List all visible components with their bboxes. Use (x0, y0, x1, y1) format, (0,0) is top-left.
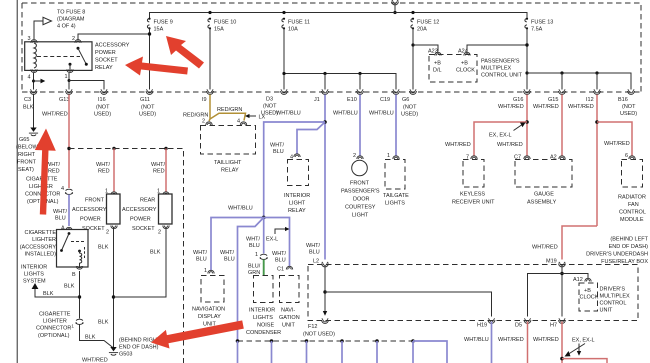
svg-text:WHT/: WHT/ (306, 243, 321, 249)
svg-text:CLOCK: CLOCK (580, 295, 599, 301)
svg-text:BLK: BLK (64, 284, 75, 290)
svg-text:C1: C1 (277, 267, 284, 273)
svg-text:L2: L2 (313, 259, 319, 265)
svg-text:(NOT: (NOT (96, 105, 110, 111)
svg-text:4: 4 (28, 75, 31, 81)
tailgate lights (383, 153, 409, 207)
bottom dashed bus (236, 339, 415, 343)
svg-text:LIGHT: LIGHT (352, 213, 369, 219)
svg-text:BLK: BLK (43, 291, 54, 297)
svg-text:LIGHTS: LIGHTS (253, 315, 273, 321)
svg-text:PASSENGER'S: PASSENGER'S (341, 189, 380, 195)
svg-text:A12: A12 (573, 277, 583, 283)
svg-text:LIGHTER: LIGHTER (32, 237, 56, 243)
red arrow annotation G503 (151, 320, 244, 348)
branch M19 to A12 (562, 274, 588, 279)
connector C3 (23, 89, 37, 110)
svg-text:BLK: BLK (98, 245, 109, 251)
svg-text:EX, EX-L: EX, EX-L (572, 338, 595, 344)
svg-text:BLU: BLU (273, 149, 284, 155)
fuse12 tap to A23 (411, 43, 438, 51)
lighter wire to ground joint (80, 325, 114, 349)
svg-text:F12: F12 (308, 324, 317, 330)
taillight relay (201, 119, 256, 174)
svg-text:WHT/BLU: WHT/BLU (369, 111, 394, 117)
svg-text:BLK: BLK (98, 320, 109, 326)
I9 red/grn wire (183, 95, 246, 122)
svg-text:LIGHTS: LIGHTS (24, 272, 44, 278)
rear accessory power socket (122, 189, 172, 236)
svg-text:D5: D5 (515, 323, 522, 329)
svg-text:RIGHT: RIGHT (18, 152, 36, 158)
front passenger's door courtesy light (341, 153, 380, 219)
svg-text:NOISE: NOISE (257, 323, 274, 329)
svg-text:RED: RED (153, 169, 165, 175)
svg-text:CONTROL: CONTROL (619, 210, 646, 216)
svg-text:DRIVER'S UNDERDASH: DRIVER'S UNDERDASH (586, 252, 648, 258)
svg-text:CONTROL UNIT: CONTROL UNIT (481, 73, 523, 79)
EX, EX-L annotation bottom (565, 338, 595, 357)
svg-text:MULTIPLEX: MULTIPLEX (600, 294, 630, 300)
svg-text:USED): USED) (139, 112, 156, 118)
ground G65 (16, 128, 39, 174)
svg-text:WHT/: WHT/ (220, 250, 235, 256)
svg-text:D/L: D/L (433, 68, 442, 74)
svg-text:(NOT: (NOT (403, 105, 417, 111)
svg-text:(BEHIND LEFT: (BEHIND LEFT (610, 237, 648, 243)
svg-text:BLU: BLU (196, 257, 207, 263)
J1 blue wire down (323, 95, 327, 260)
svg-text:1: 1 (387, 153, 390, 159)
wire to rear socket (151, 149, 166, 193)
G15 red wire to A2 (561, 95, 563, 156)
svg-text:(NOT: (NOT (141, 105, 155, 111)
svg-text:BLU: BLU (224, 257, 235, 263)
I12 wire jog to M19 (532, 226, 597, 260)
dashed branch wire (69, 149, 184, 363)
front socket ground wire (98, 227, 115, 348)
svg-text:WHT/BLU: WHT/BLU (276, 111, 301, 117)
svg-text:RED/GRN: RED/GRN (217, 107, 242, 113)
connector D3 (not used) (261, 89, 287, 116)
interior lights system arrow (21, 265, 80, 298)
svg-text:A24: A24 (458, 49, 468, 55)
svg-text:NAVI-: NAVI- (281, 308, 295, 314)
svg-text:FUSE 13: FUSE 13 (531, 20, 553, 26)
svg-text:G503: G503 (119, 352, 132, 358)
svg-text:LIGHTER: LIGHTER (43, 319, 67, 325)
blu/grn wire (248, 260, 264, 277)
ground G503 (109, 338, 161, 358)
to fuse 8 arrow (34, 10, 85, 40)
H7 node and branch right (560, 357, 607, 363)
F12 connector (not used) (303, 318, 335, 337)
svg-text:WHT/BLU: WHT/BLU (333, 111, 358, 117)
svg-text:WHT/: WHT/ (272, 251, 287, 257)
svg-text:B: B (72, 272, 76, 278)
svg-text:INSTALLED): INSTALLED) (25, 252, 57, 258)
cigarette lighter connector (optional) upper (25, 177, 73, 206)
rear socket ground wire (114, 227, 167, 297)
node G13 branch (67, 147, 167, 150)
I12 red wire (595, 95, 599, 227)
svg-text:G13: G13 (59, 97, 69, 103)
red arrow annotation relay (125, 57, 188, 76)
cigarette lighter connector (optional) lower (36, 312, 84, 340)
branch to interior light relay (270, 122, 325, 155)
svg-text:E10: E10 (347, 97, 357, 103)
fuse 12 (411, 18, 439, 90)
svg-text:INTERIOR: INTERIOR (284, 193, 310, 199)
blue drops below bus (238, 341, 414, 363)
svg-text:(NOT USED): (NOT USED) (303, 332, 335, 338)
svg-text:4 OF 4): 4 OF 4) (57, 24, 76, 30)
svg-text:INTERIOR: INTERIOR (21, 265, 47, 271)
wire to front socket (96, 149, 114, 193)
svg-text:H7: H7 (550, 323, 557, 329)
svg-text:FUSE 11: FUSE 11 (288, 20, 310, 26)
svg-text:RED: RED (98, 169, 110, 175)
branch to navigation display unit (193, 218, 264, 271)
svg-text:J1: J1 (314, 97, 320, 103)
svg-text:INTERIOR: INTERIOR (249, 308, 275, 314)
wire pin2 to fuse9 node (78, 32, 151, 39)
connector G13 (42, 89, 72, 117)
svg-text:RED: RED (48, 169, 60, 175)
svg-text:M19: M19 (546, 259, 557, 265)
svg-text:G65: G65 (19, 137, 29, 143)
inline connector condenser (255, 252, 268, 259)
svg-text:ACCESSORY: ACCESSORY (95, 43, 130, 49)
gauge assembly (514, 155, 572, 206)
blue branch left from J1 node (264, 122, 325, 218)
C19 wire to tailgate lights (395, 95, 397, 156)
svg-text:WHT/RED: WHT/RED (533, 104, 559, 110)
svg-text:USED): USED) (620, 111, 637, 117)
svg-text:C3: C3 (24, 97, 31, 103)
svg-text:ACCESSORY: ACCESSORY (122, 207, 157, 213)
svg-text:I12: I12 (586, 97, 594, 103)
svg-text:KEYLESS: KEYLESS (460, 192, 485, 198)
EX, EX-L annotation top (489, 123, 526, 139)
wire G13 red down (68, 95, 70, 189)
svg-text:WHT/: WHT/ (246, 237, 261, 243)
svg-text:FUSE 10: FUSE 10 (214, 20, 236, 26)
keyless receiver unit (452, 155, 495, 206)
bus wire (150, 11, 528, 19)
red arrow annotation fuse9 (166, 36, 204, 69)
svg-text:SEAT): SEAT) (18, 167, 34, 173)
connector row dashed line (22, 91, 641, 93)
connector H7 (533, 318, 565, 363)
svg-text:BLU: BLU (309, 250, 320, 256)
label wht/red C7 (497, 142, 523, 148)
svg-text:RELAY: RELAY (288, 208, 306, 214)
wire C3 to ground (33, 95, 35, 128)
svg-text:CIGARETTE: CIGARETTE (25, 230, 57, 236)
svg-text:20A: 20A (417, 27, 427, 33)
svg-text:(NOT: (NOT (263, 104, 277, 110)
svg-text:MODULE: MODULE (620, 217, 644, 223)
bottom left label (82, 358, 108, 363)
svg-text:7.5A: 7.5A (531, 27, 543, 33)
connector D5 (498, 318, 531, 363)
svg-text:LX: LX (259, 115, 266, 121)
connector G16 (498, 89, 530, 110)
lighter ground wire BLK (64, 271, 81, 319)
svg-text:G11: G11 (140, 97, 150, 103)
svg-text:WHT/RED: WHT/RED (532, 245, 558, 251)
svg-text:POWER: POWER (80, 217, 101, 223)
cigarette lighter (accessory installed) (20, 227, 88, 278)
svg-text:MULTIPLEX: MULTIPLEX (481, 66, 511, 72)
wire pin4 to C3 (32, 73, 45, 90)
red arrow annotation cigarette connector (35, 129, 56, 215)
connector G11 (not used) (139, 89, 156, 117)
svg-text:(OPTIONAL): (OPTIONAL) (38, 333, 70, 339)
wire wht/blu to lighter (53, 195, 69, 232)
svg-text:LIGHTS: LIGHTS (385, 201, 405, 207)
connector I12 (568, 89, 600, 110)
svg-text:FRONT: FRONT (17, 160, 37, 166)
connector B16 (not used) (618, 89, 637, 117)
svg-text:WHT/RED: WHT/RED (497, 142, 523, 148)
svg-text:POWER: POWER (130, 217, 151, 223)
navigation display unit (192, 268, 225, 335)
svg-text:WHT/RED: WHT/RED (82, 358, 108, 363)
svg-text:2: 2 (72, 36, 75, 42)
underhood fuse/relay box (dashed) (22, 3, 641, 92)
interior lights noise condenser (246, 276, 281, 337)
svg-text:FUSE/RELAY BOX: FUSE/RELAY BOX (601, 259, 648, 265)
svg-text:A23: A23 (428, 49, 438, 55)
svg-text:2: 2 (158, 230, 161, 236)
fuse 10 (208, 18, 236, 90)
svg-text:WHT/: WHT/ (53, 209, 68, 215)
svg-text:DOOR: DOOR (353, 197, 370, 203)
svg-text:RADIATOR: RADIATOR (618, 195, 646, 201)
svg-text:END OF DASH): END OF DASH) (609, 244, 649, 250)
wire pin1 to G13 and I16 (68, 73, 105, 90)
svg-text:G15: G15 (548, 97, 558, 103)
svg-text:GAUGE: GAUGE (534, 192, 554, 198)
connector M19 (546, 259, 565, 267)
connector I9 (202, 89, 213, 103)
svg-text:2: 2 (106, 230, 109, 236)
connector J1 (276, 89, 328, 116)
svg-text:DISPLAY: DISPLAY (198, 314, 221, 320)
M19 node (560, 266, 563, 317)
svg-text:(ACCESSORY: (ACCESSORY (20, 245, 57, 251)
svg-text:I9: I9 (202, 97, 207, 103)
svg-text:WHT/RED: WHT/RED (568, 104, 594, 110)
svg-text:ASSEMBLY: ASSEMBLY (527, 200, 557, 206)
svg-text:D3: D3 (266, 97, 273, 103)
svg-text:SOCKET: SOCKET (95, 58, 118, 64)
G16 red wire (525, 95, 529, 156)
svg-text:B16: B16 (618, 97, 628, 103)
svg-text:ACCESSORY: ACCESSORY (72, 207, 107, 213)
svg-text:WHT/RED: WHT/RED (445, 142, 471, 148)
svg-text:(DIAGRAM: (DIAGRAM (57, 17, 85, 23)
svg-text:I16: I16 (98, 97, 106, 103)
svg-text:15A: 15A (154, 27, 164, 33)
LX annotation (245, 114, 266, 121)
svg-text:TO FUSE 8: TO FUSE 8 (57, 10, 85, 16)
svg-text:CLOCK: CLOCK (456, 68, 475, 74)
svg-text:2: 2 (202, 119, 205, 125)
fuse 13 (525, 18, 553, 90)
A24 feed from fuse13 (467, 43, 529, 51)
interior light relay (284, 154, 310, 214)
svg-text:RECEIVER UNIT: RECEIVER UNIT (452, 200, 495, 206)
branch to radiator fan control module (597, 122, 632, 156)
svg-text:BLK: BLK (23, 105, 34, 111)
fuse11 feed to J1 E10 C19 (282, 72, 396, 90)
connector H19 (464, 318, 495, 363)
svg-text:GATION: GATION (279, 315, 300, 321)
fuse 9 (147, 18, 172, 90)
svg-text:+B: +B (584, 288, 591, 294)
svg-text:1: 1 (255, 252, 258, 258)
svg-text:WHT/: WHT/ (151, 162, 166, 168)
svg-text:1: 1 (65, 74, 68, 80)
branch bypass to bottom bus (220, 218, 264, 342)
svg-text:WHT/: WHT/ (96, 162, 111, 168)
svg-text:CONTROL: CONTROL (600, 301, 627, 307)
fuse 11 (282, 18, 310, 90)
svg-text:2: 2 (353, 153, 356, 159)
page edge line (16, 0, 18, 363)
svg-text:CIGARETTE: CIGARETTE (39, 312, 71, 318)
driver's underdash fuse/relay box (308, 237, 649, 321)
svg-text:4: 4 (237, 119, 240, 125)
svg-text:WHT/RED: WHT/RED (42, 112, 68, 118)
branch to navigation unit (264, 218, 290, 267)
svg-text:REAR: REAR (140, 198, 155, 204)
svg-text:FUSE 12: FUSE 12 (417, 20, 439, 26)
navigation unit (277, 266, 300, 328)
svg-text:WHT/BLU: WHT/BLU (464, 337, 489, 343)
svg-text:WHT/: WHT/ (270, 143, 285, 149)
svg-text:TAILGATE: TAILGATE (383, 193, 409, 199)
svg-text:RELAY: RELAY (95, 65, 113, 71)
svg-text:POWER: POWER (95, 50, 116, 56)
svg-text:FUSE 9: FUSE 9 (154, 20, 173, 26)
svg-text:(NOT: (NOT (622, 104, 636, 110)
E10 wire to courtesy light (359, 95, 361, 156)
svg-text:SOCKET: SOCKET (132, 226, 155, 232)
wire F12 node to H19 (325, 292, 492, 317)
svg-text:CONDENSER: CONDENSER (246, 330, 281, 336)
L2 to F12 wire (323, 266, 327, 316)
svg-text:CONNECTOR1: CONNECTOR1 (36, 324, 74, 332)
connector I16 (not used) (94, 89, 111, 117)
svg-text:6: 6 (625, 153, 628, 159)
svg-text:C19: C19 (380, 97, 390, 103)
svg-text:WHT/RED: WHT/RED (498, 104, 524, 110)
radiator fan control module (618, 153, 646, 223)
top feed connector (392, 0, 399, 14)
branch to keyless receiver (445, 122, 527, 156)
svg-text:COURTESY: COURTESY (345, 205, 376, 211)
svg-text:RELAY: RELAY (221, 168, 239, 174)
label wht/red left (46, 162, 61, 175)
svg-text:WHT/BLU: WHT/BLU (228, 206, 253, 212)
svg-text:1: 1 (204, 268, 207, 274)
svg-text:FRONT: FRONT (350, 181, 370, 187)
label wht/blu mid (228, 206, 253, 212)
svg-text:WHT/: WHT/ (193, 250, 208, 256)
connector C19 (369, 89, 399, 116)
svg-text:BLK: BLK (85, 335, 96, 341)
svg-text:USED): USED) (94, 112, 111, 118)
svg-text:BLU/: BLU/ (248, 264, 261, 270)
svg-text:+B: +B (434, 61, 441, 67)
svg-text:FRONT: FRONT (85, 198, 105, 204)
center junction node (262, 216, 266, 220)
accessory power socket relay U1 (25, 36, 130, 81)
svg-text:LIGHT: LIGHT (289, 201, 306, 207)
svg-text:DRIVER'S: DRIVER'S (600, 287, 626, 293)
svg-text:TAILLIGHT: TAILLIGHT (214, 160, 242, 166)
svg-text:FAN: FAN (628, 202, 639, 208)
svg-text:BLU: BLU (55, 216, 66, 222)
svg-text:WHT/RED: WHT/RED (533, 337, 559, 343)
svg-text:H19: H19 (477, 323, 487, 329)
svg-text:10A: 10A (288, 27, 298, 33)
connector E10 (333, 89, 363, 116)
svg-text:+B: +B (461, 61, 468, 67)
svg-text:END OF DASH): END OF DASH) (119, 345, 159, 351)
svg-text:BLU: BLU (275, 258, 286, 264)
bus blue tail (413, 341, 447, 363)
connector G15 (533, 89, 565, 110)
branch down to noise condenser (246, 218, 264, 254)
passenger's multiplex control unit (428, 49, 523, 83)
svg-text:WHT/RED: WHT/RED (604, 141, 630, 147)
branch M19 to D5 (528, 274, 563, 317)
svg-text:15A: 15A (214, 27, 224, 33)
svg-text:BLU: BLU (249, 243, 260, 249)
svg-text:UNIT: UNIT (600, 308, 613, 314)
svg-text:PASSENGER'S: PASSENGER'S (481, 59, 520, 65)
EX-L annotation (266, 227, 290, 243)
svg-text:WHT/RED: WHT/RED (498, 337, 524, 343)
front accessory power socket (72, 189, 120, 236)
svg-text:NAVIGATION: NAVIGATION (192, 307, 225, 313)
svg-text:WHT/: WHT/ (46, 162, 61, 168)
svg-text:3: 3 (28, 36, 31, 42)
svg-text:G6: G6 (402, 97, 409, 103)
fuse13 feed row to G16 G15 I12 B16 (525, 71, 631, 89)
svg-text:UNIT: UNIT (282, 323, 295, 329)
svg-text:G16: G16 (513, 97, 523, 103)
svg-text:BLK: BLK (150, 250, 161, 256)
svg-text:USED): USED) (401, 112, 418, 118)
driver's multiplex control unit (573, 277, 630, 314)
svg-text:SYSTEM: SYSTEM (23, 279, 46, 285)
svg-text:EX, EX-L: EX, EX-L (489, 133, 512, 139)
svg-text:4: 4 (61, 186, 64, 192)
connector L2 (306, 243, 328, 267)
svg-text:EX-L: EX-L (266, 237, 278, 243)
connector G6 (not used) (401, 89, 418, 117)
